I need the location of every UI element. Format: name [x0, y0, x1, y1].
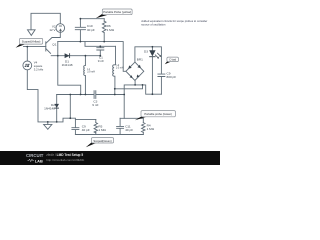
svg-text:D3: D3 [144, 50, 148, 54]
svg-text:9 nF: 9 nF [98, 59, 104, 63]
svg-text:1N4148: 1N4148 [44, 107, 55, 111]
svg-text:Scoped(Yellow): Scoped(Yellow) [22, 40, 41, 44]
svg-text:1 MΩ: 1 MΩ [147, 127, 155, 131]
svg-text:Scoped(Green): Scoped(Green) [93, 139, 111, 143]
svg-text:40 pF: 40 pF [125, 128, 133, 132]
svg-text:Q1: Q1 [52, 43, 56, 47]
svg-text:3.9 mH: 3.9 mH [87, 71, 95, 74]
svg-text:40 pF: 40 pF [82, 128, 90, 132]
svg-text:http://circuitlab.com/c/29k84t: http://circuitlab.com/c/29k84t [46, 158, 84, 162]
svg-text:C-load: C-load [169, 59, 176, 61]
svg-text:1 MΩ: 1 MΩ [98, 128, 106, 132]
svg-text:1 MΩ: 1 MΩ [107, 28, 115, 32]
svg-text:Added equivalent circuits for: Added equivalent circuits for scope prob… [141, 19, 207, 23]
svg-text:source of oscillation: source of oscillation [141, 23, 166, 27]
svg-text:40 pF: 40 pF [87, 28, 95, 32]
svg-text:CIRCUIT: CIRCUIT [26, 153, 44, 158]
svg-text:Portable probe (Green): Portable probe (Green) [144, 112, 172, 116]
svg-text:800 pF: 800 pF [167, 75, 177, 79]
svg-text:1.0 mH: 1.0 mH [116, 67, 124, 70]
svg-text:zfedir / LMD Test Setup 5: zfedir / LMD Test Setup 5 [46, 153, 83, 157]
svg-text:3.2 kHz: 3.2 kHz [34, 67, 44, 71]
svg-text:1N4148: 1N4148 [62, 63, 73, 67]
svg-text:Portable Probe (yellow): Portable Probe (yellow) [103, 10, 131, 14]
svg-text:BR1: BR1 [137, 57, 143, 61]
svg-text:12 V: 12 V [49, 28, 55, 32]
svg-text:9 nF: 9 nF [92, 103, 98, 107]
svg-text:LAB: LAB [35, 158, 43, 163]
